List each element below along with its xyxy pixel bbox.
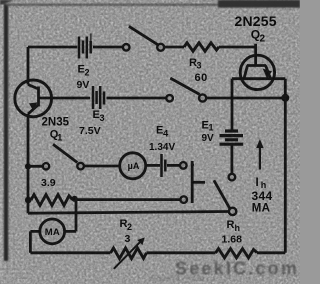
junction shunt left bus [25,197,32,204]
resistor Rh [216,249,258,258]
wire MA meter plus lead [65,199,76,232]
vibrator pole lead [192,181,205,184]
transistor Q2 [240,55,274,89]
rheostat R2 arrow [114,237,145,268]
wire Q2 base drop [254,44,257,66]
wire E1 to switch S4 top contact [230,145,233,174]
switch S2 terminal left [166,95,173,102]
wire Q1 base to row2 [39,97,91,100]
battery E4 [162,154,166,177]
switch S4 pivot contact [229,208,236,215]
switch S3 blade [53,144,77,162]
transistor Q1 [15,80,52,117]
wire S1 to R3 [165,46,185,49]
switch S1 terminal left [123,44,130,51]
watermark [150,259,299,284]
switch S1 blade [129,26,158,44]
wire shunt line to vibrator bottom contact [73,198,181,201]
junction row3 left bus [25,163,31,169]
wire R3 to Q2 base [219,46,256,49]
wire left bus [27,114,30,213]
wire Q2 rail left drop to row2 [231,79,234,131]
switch S4 blade [214,180,230,208]
wire S2 to right column [206,97,285,100]
wire uA meter to E4 [146,164,160,167]
resistor 3.9 [31,195,73,206]
switch S1 terminal right [157,44,164,51]
switch S2 terminal right [199,94,206,101]
vibrator top contact [180,162,187,169]
switch S3 terminal right [77,163,84,170]
wire S3 to microammeter [84,165,120,168]
rheostat R2 [111,248,147,259]
vibrator bottom contact [180,196,187,203]
meter MA [40,219,65,244]
battery E1 [220,131,244,144]
battery E2 [79,34,91,59]
resistor R3 [184,43,219,51]
wire Q2 emitter-collector rail [232,77,285,80]
wire E3 to switch S2 [107,97,166,100]
wire MA meter minus lead [30,231,39,252]
switch S2 blade [170,78,199,94]
switch S3 terminal left [43,163,49,169]
wire line B to switch S4 [28,212,229,214]
wire right column [284,79,287,253]
wire bottom row [30,251,285,254]
switch S4 top contact [229,174,236,181]
junction shunt meter tap [72,196,78,202]
junction row2 right column [281,94,289,102]
battery E3 [93,86,104,109]
wire Q1 top feed [27,47,30,85]
current arrow Ih [256,139,263,170]
wire E2 to switch S1 [93,46,123,49]
wire E4 to vibrator top contact [167,164,180,167]
wire top row left [28,46,77,49]
meter uA [120,153,146,179]
wire row3 from left bus [28,165,43,168]
vibrator pole bar [191,161,194,203]
